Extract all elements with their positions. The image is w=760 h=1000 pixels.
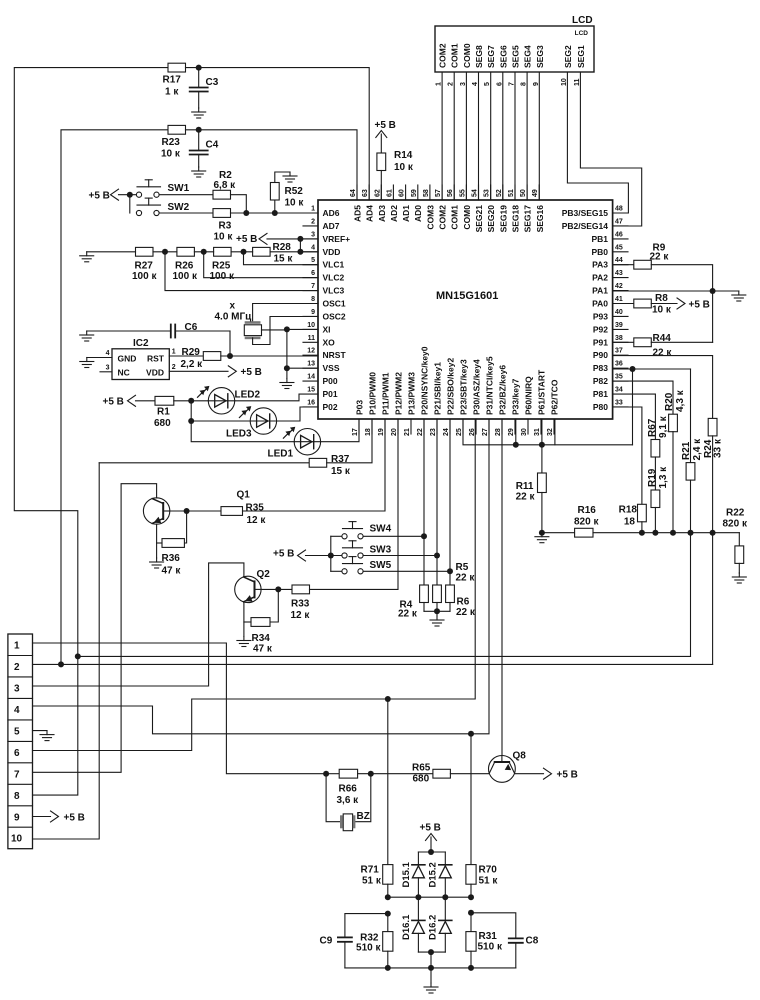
svg-text:SEG1: SEG1 — [576, 45, 586, 68]
ground VSS/resonator — [280, 368, 294, 388]
svg-text:P32/BZ/key6: P32/BZ/key6 — [498, 365, 508, 415]
svg-text:R14: R14 — [394, 150, 413, 161]
svg-text:10: 10 — [11, 834, 23, 845]
LCD pin 1 COM2 — [436, 43, 448, 86]
wire R17 net: left rail down to pin8/pin4 branch — [14, 68, 168, 796]
U1 pin 35 P82 — [593, 374, 628, 387]
capacitor C8 — [509, 936, 539, 968]
ground R27 — [80, 252, 94, 262]
svg-text:COM1: COM1 — [450, 205, 460, 230]
svg-text:47: 47 — [615, 218, 623, 225]
U1 pin 62 AD3 — [374, 185, 387, 222]
svg-text:50: 50 — [520, 189, 527, 197]
svg-text:10 к: 10 к — [214, 232, 234, 243]
wire R33 to MCU pin 20 P12 — [310, 419, 399, 589]
ground C4 — [192, 167, 206, 177]
U1 pin 13 VSS — [303, 361, 340, 374]
svg-text:14: 14 — [307, 374, 315, 381]
U1 pin 5 VLC1 — [303, 257, 345, 270]
U1 pin 57 COM2 — [435, 185, 448, 230]
ground connector pin 5 — [40, 731, 54, 741]
resistor R36 base-emitter — [157, 511, 187, 577]
IC2 pin 4 GND stub — [87, 350, 112, 358]
svg-text:+5 В: +5 В — [420, 823, 441, 834]
wire LCD pin 10 SEG2 to MCU pin 48 PB3/SEG15 — [567, 72, 628, 213]
wire Q1 emitter to ground — [156, 524, 158, 558]
wire pin6 net down to R71 — [387, 699, 389, 865]
svg-text:D16.1: D16.1 — [401, 914, 412, 940]
U1 pin 24 P22/SBO/key2 — [443, 358, 456, 436]
svg-text:1 к: 1 к — [165, 87, 179, 98]
svg-text:LCD: LCD — [575, 30, 589, 37]
wire VREF+ to VDD line — [299, 239, 301, 252]
node R23/C4 junction — [196, 127, 202, 133]
wire R29 to MCU pin 12 NRST — [221, 355, 318, 357]
resistor R23 — [161, 125, 186, 159]
wire R27-R26 node to pin 7 VLC3 — [153, 251, 177, 253]
U1 pin 41 PA0 — [592, 296, 628, 309]
svg-text:+5 В: +5 В — [103, 397, 124, 408]
U1 pin 22 P20/NSYNC/key0 — [417, 346, 430, 436]
resistor R11 — [516, 473, 547, 503]
svg-text:R67: R67 — [647, 418, 658, 437]
wire +5V to pin 3 VREF+ — [267, 238, 318, 240]
svg-text:XO: XO — [323, 337, 336, 347]
svg-text:SEG7: SEG7 — [486, 45, 496, 68]
svg-text:x: x — [230, 301, 236, 312]
wire Q2 base node — [261, 588, 292, 590]
U1 pin 30 P60/NIRQ — [521, 376, 534, 436]
svg-text:R37: R37 — [331, 454, 350, 465]
wire MCU pin 36 P83 to R21 column — [613, 368, 691, 370]
LCD pin 8 SEG4 — [521, 45, 533, 86]
switch SW1 — [136, 180, 189, 197]
wire connector pin 4 to pin 27 net — [33, 419, 490, 734]
svg-text:P93: P93 — [593, 311, 608, 321]
svg-text:SEG17: SEG17 — [523, 205, 533, 233]
U1 pin 53 SEG20 — [484, 185, 497, 232]
svg-text:P23/SBT/key3: P23/SBT/key3 — [459, 359, 469, 415]
svg-text:47 к: 47 к — [162, 566, 182, 577]
svg-text:+5 В: +5 В — [89, 191, 110, 202]
wire LCD pins 1-9 to MCU COM2..SEG16 — [442, 72, 539, 200]
svg-text:C6: C6 — [185, 322, 198, 333]
wire bus to R22 — [738, 533, 740, 546]
resistor R32 — [356, 914, 393, 968]
svg-text:R27: R27 — [135, 261, 154, 272]
switch SW5 — [331, 557, 392, 574]
svg-text:C4: C4 — [206, 140, 219, 151]
capacitor C9 — [320, 936, 352, 968]
resistor R67 — [647, 415, 669, 457]
svg-text:34: 34 — [615, 387, 623, 394]
svg-text:SEG19: SEG19 — [498, 205, 508, 233]
svg-text:SW3: SW3 — [370, 545, 392, 556]
svg-text:22 к: 22 к — [650, 251, 670, 262]
svg-text:8: 8 — [311, 296, 315, 303]
svg-text:SEG20: SEG20 — [486, 205, 496, 233]
svg-text:43: 43 — [615, 270, 623, 277]
svg-text:D15.1: D15.1 — [401, 861, 412, 887]
power +5V connector pin 9 — [51, 811, 85, 824]
svg-text:Q1: Q1 — [237, 490, 251, 501]
wire MCU pin 33 P80 to R18 — [613, 407, 642, 504]
svg-text:P62/TCO: P62/TCO — [550, 379, 560, 415]
wire R37 line from left rail — [99, 462, 309, 464]
wire MCU pin 22 column — [423, 419, 425, 585]
resistor R31 — [466, 913, 503, 968]
svg-text:R5: R5 — [456, 562, 469, 573]
svg-text:XI: XI — [323, 324, 331, 334]
wire R65 to Q8 — [450, 773, 488, 775]
U1 pin 21 P13/PWM3 — [404, 372, 417, 436]
resistor R66 — [337, 769, 360, 806]
svg-text:PA0: PA0 — [592, 299, 608, 309]
wire +5V to switch block — [306, 555, 343, 557]
svg-text:R66: R66 — [339, 784, 358, 795]
svg-text:D15.2: D15.2 — [428, 862, 439, 887]
diode D16.1 — [401, 897, 425, 952]
resistor R20 — [664, 389, 686, 431]
svg-text:36: 36 — [615, 361, 623, 368]
U1 pin 46 PB1 — [591, 231, 628, 244]
wire MCU pin 34 P81 to R67 — [613, 394, 656, 439]
U1 pin 52 SEG19 — [496, 185, 509, 232]
wire LED2 to MCU pin 15 P01 — [235, 394, 318, 401]
svg-text:100 к: 100 к — [210, 271, 235, 282]
svg-text:680: 680 — [413, 774, 430, 785]
resistor R70 — [466, 865, 499, 887]
svg-text:2,2 к: 2,2 к — [181, 359, 204, 370]
wire LED1 to MCU pin 17 P03 — [321, 419, 359, 442]
svg-text:PA1: PA1 — [592, 286, 608, 296]
svg-text:53: 53 — [484, 189, 491, 197]
svg-text:10 к: 10 к — [161, 149, 181, 160]
power +5V diode clamp — [420, 823, 441, 841]
resistor R29 — [181, 347, 221, 370]
svg-text:57: 57 — [435, 189, 442, 197]
svg-text:R35: R35 — [246, 503, 265, 514]
svg-text:4: 4 — [311, 244, 315, 251]
wire R1 node down to LED3 — [190, 401, 192, 421]
U1 pin 49 SEG16 — [532, 185, 545, 232]
svg-text:R71: R71 — [361, 865, 380, 876]
svg-text:510 к: 510 к — [356, 943, 381, 954]
resistor R3 — [213, 209, 233, 243]
svg-text:7: 7 — [14, 769, 20, 780]
wire net R17/pin8 branch to R21 bottom — [78, 655, 691, 657]
LED LED3 — [226, 406, 277, 439]
resistor R21 — [681, 438, 703, 480]
svg-text:P33/key7: P33/key7 — [511, 378, 521, 415]
U1 pin 36 P83 — [593, 361, 628, 374]
wire R21 column to pin8 net line — [690, 533, 692, 657]
wire connector pin 1 to buzzer network — [33, 643, 327, 774]
resistor R4 — [398, 585, 428, 620]
svg-text:62: 62 — [374, 189, 381, 197]
svg-text:3: 3 — [311, 231, 315, 238]
wire R11 node to R16 — [542, 532, 575, 534]
power +5V R1 — [103, 395, 136, 407]
switch SW4 — [331, 522, 392, 539]
capacitor C6 — [87, 322, 230, 338]
svg-text:4: 4 — [14, 705, 20, 716]
svg-text:COM2: COM2 — [438, 43, 448, 68]
svg-text:3: 3 — [14, 683, 20, 694]
U1 pin 6 VLC2 — [303, 270, 345, 283]
svg-text:P22/SBO/key2: P22/SBO/key2 — [446, 358, 456, 415]
svg-text:R26: R26 — [175, 261, 194, 272]
wire R37 rail down to connector pin 10 — [33, 463, 100, 839]
svg-text:AD2: AD2 — [389, 205, 399, 222]
ground R4/R5/R6 — [430, 616, 444, 626]
transistor Q2 — [235, 569, 271, 603]
ground C6 — [80, 331, 94, 341]
svg-text:SW2: SW2 — [168, 202, 190, 213]
resistor R44 — [634, 333, 673, 359]
U1 pin 29 P33/key7 — [508, 378, 521, 436]
resistor R9 — [634, 243, 670, 270]
svg-text:23: 23 — [430, 428, 437, 436]
svg-text:10: 10 — [307, 322, 315, 329]
svg-text:P81: P81 — [593, 389, 608, 399]
wire key line up to P83 node — [632, 369, 634, 445]
svg-text:10 к: 10 к — [394, 162, 414, 173]
svg-text:9: 9 — [14, 812, 20, 823]
svg-text:R16: R16 — [578, 505, 597, 516]
svg-text:P31/NTCI/key5: P31/NTCI/key5 — [485, 356, 495, 415]
wire resonator center to XI and VSS ground — [262, 329, 287, 331]
crystal resonator X1 4.0 MHz — [215, 301, 262, 338]
resistor R28 — [253, 242, 294, 265]
svg-text:15 к: 15 к — [274, 254, 294, 265]
svg-text:R6: R6 — [457, 597, 470, 608]
wire R17 to C3 and MCU pin 63 — [186, 68, 370, 200]
resistor R71 — [361, 865, 393, 887]
supervisor IC2 — [112, 338, 169, 380]
U1 pin 20 P12/PWM2 — [391, 372, 404, 436]
svg-text:P91: P91 — [593, 337, 608, 347]
svg-text:P80: P80 — [593, 402, 608, 412]
U1 pin 7 VLC3 — [303, 283, 345, 296]
svg-text:58: 58 — [423, 189, 430, 197]
svg-text:D16.2: D16.2 — [428, 915, 439, 940]
wire LED3 to MCU pin 16 P02 — [277, 407, 318, 421]
svg-text:680: 680 — [154, 418, 171, 429]
svg-text:SEG16: SEG16 — [535, 205, 545, 233]
svg-text:C9: C9 — [320, 936, 333, 947]
svg-text:R33: R33 — [291, 599, 310, 610]
svg-text:55: 55 — [459, 189, 466, 197]
svg-text:39: 39 — [615, 322, 623, 329]
svg-text:820 к: 820 к — [574, 517, 599, 528]
switch SW3 — [342, 541, 392, 558]
svg-text:SEG21: SEG21 — [474, 205, 484, 233]
svg-text:6: 6 — [311, 270, 315, 277]
svg-text:VLC1: VLC1 — [323, 260, 345, 270]
svg-text:P60/NIRQ: P60/NIRQ — [524, 376, 534, 415]
svg-text:12 к: 12 к — [247, 515, 267, 526]
svg-text:+5 В: +5 В — [64, 813, 85, 824]
wire R26-R25 node to pin 6 VLC2 — [194, 251, 213, 253]
svg-text:R23: R23 — [162, 137, 181, 148]
svg-text:22: 22 — [417, 428, 424, 436]
wire R24 column down to connector pin2 net — [712, 533, 714, 665]
svg-text:41: 41 — [615, 296, 623, 303]
svg-text:1: 1 — [14, 641, 20, 652]
svg-text:P00: P00 — [323, 376, 338, 386]
power +5V IC2 — [228, 366, 262, 378]
wire MCU pin 32 column — [554, 419, 556, 445]
resistor R19 — [647, 466, 669, 508]
svg-text:5: 5 — [14, 726, 20, 737]
U1 pin 58 COM3 — [423, 185, 436, 230]
wire R44 to PA1 node column — [651, 341, 712, 343]
wire Q1 collector to connector pin 7 — [33, 484, 157, 773]
wire SW5 to pin24 column — [363, 570, 450, 572]
wire MCU pin 35 P82 to R20 — [613, 381, 673, 414]
svg-text:SEG3: SEG3 — [535, 45, 545, 68]
U1 pin 33 P80 — [593, 399, 628, 412]
wire C6 to NRST node — [229, 331, 231, 356]
node R17/C3 junction — [196, 65, 202, 71]
LCD pin 9 SEG3 — [533, 45, 545, 86]
power +5V R8 — [677, 298, 710, 311]
wire SW4 to pin22 column — [363, 535, 424, 537]
wire R9 down to PA1 node — [651, 265, 712, 343]
svg-text:29: 29 — [508, 428, 515, 436]
LCD connector — [435, 15, 594, 86]
LCD pin 4 SEG8 — [472, 45, 484, 86]
resistor R22 — [723, 508, 748, 564]
svg-text:48: 48 — [615, 206, 623, 213]
U1 pin 56 COM1 — [447, 185, 460, 230]
svg-text:PB2/SEG14: PB2/SEG14 — [562, 221, 609, 231]
svg-text:PB1: PB1 — [591, 234, 608, 244]
U1 pin 25 P23/SBT/key3 — [456, 359, 469, 436]
svg-text:VSS: VSS — [323, 363, 340, 373]
svg-text:+5 В: +5 В — [557, 770, 578, 781]
svg-text:R31: R31 — [479, 931, 498, 942]
svg-text:+5 В: +5 В — [241, 367, 262, 378]
svg-text:P01: P01 — [323, 389, 338, 399]
svg-text:24: 24 — [443, 428, 450, 436]
svg-text:SEG8: SEG8 — [474, 45, 484, 68]
wire VSS — [287, 367, 318, 369]
svg-text:R19: R19 — [647, 468, 658, 487]
svg-text:60: 60 — [399, 189, 406, 197]
svg-text:GND: GND — [118, 354, 137, 364]
svg-text:+5 В: +5 В — [375, 120, 396, 131]
svg-text:12 к: 12 к — [291, 610, 311, 621]
wire SW1 to R2 — [159, 194, 213, 196]
U1 pin 1 AD6 — [303, 206, 340, 219]
diode D15.2 — [428, 852, 452, 897]
svg-text:51: 51 — [508, 189, 515, 197]
wire MCU pin 24 column — [449, 419, 451, 585]
svg-text:PB3/SEG15: PB3/SEG15 — [562, 208, 609, 218]
U1 pin 63 AD4 — [362, 185, 375, 222]
svg-text:51 к: 51 к — [479, 876, 499, 887]
svg-text:OSC1: OSC1 — [323, 299, 346, 309]
svg-text:42: 42 — [615, 283, 623, 290]
resistor R27 — [132, 247, 157, 282]
svg-text:P11/PWM1: P11/PWM1 — [381, 372, 391, 415]
svg-text:P83: P83 — [593, 363, 608, 373]
U1 pin 27 P31/NTCI/key5 — [482, 356, 495, 436]
svg-text:9,1 к: 9,1 к — [658, 415, 669, 438]
svg-text:P13/PWM3: P13/PWM3 — [407, 372, 417, 415]
svg-text:6,8 к: 6,8 к — [214, 180, 237, 191]
wire LCD pin 11 SEG1 to MCU pin 47 PB2/SEG14 — [580, 72, 641, 226]
U1 pin 51 SEG18 — [508, 185, 521, 232]
IC2 pin 3 NC stub — [100, 364, 112, 372]
U1 pin 60 AD1 — [399, 185, 412, 222]
svg-text:18: 18 — [365, 428, 372, 436]
svg-text:R17: R17 — [163, 75, 182, 86]
wire bottom bus — [345, 967, 516, 969]
U1 pin 34 P81 — [593, 387, 628, 400]
svg-text:P82: P82 — [593, 376, 608, 386]
capacitor C3 — [190, 68, 219, 108]
svg-text:NRST: NRST — [323, 350, 347, 360]
svg-text:MN15G1601: MN15G1601 — [436, 290, 498, 302]
wire R37 to MCU pin 18 P10 — [327, 419, 372, 463]
resistor R6 — [446, 585, 476, 618]
svg-text:P20/NSYNC/key0: P20/NSYNC/key0 — [420, 346, 430, 415]
svg-text:4: 4 — [106, 350, 110, 357]
svg-text:64: 64 — [350, 189, 357, 197]
resistor R14 — [377, 134, 414, 200]
LCD pin 11 SEG1 — [574, 45, 586, 86]
svg-text:SW5: SW5 — [370, 560, 392, 571]
resistor R1 — [136, 396, 174, 429]
resistor R8 — [634, 293, 672, 315]
svg-text:NC: NC — [118, 368, 130, 378]
svg-text:100 к: 100 к — [173, 271, 198, 282]
wire connector pin 5 to ground — [33, 730, 48, 732]
svg-text:1: 1 — [311, 206, 315, 213]
svg-text:6: 6 — [14, 748, 20, 759]
U1 pin 54 SEG21 — [472, 185, 485, 232]
svg-text:3: 3 — [106, 364, 110, 371]
wire to R66 — [326, 773, 339, 775]
svg-text:PB0: PB0 — [591, 247, 608, 257]
svg-text:AD5: AD5 — [353, 205, 363, 222]
wire resonator bottom to OSC2 — [253, 317, 318, 345]
svg-text:10 к: 10 к — [652, 304, 672, 315]
power +5V switches — [273, 549, 306, 562]
diode D16.2 — [428, 897, 452, 952]
switch SW2 — [136, 198, 189, 215]
svg-text:30: 30 — [521, 428, 528, 436]
LCD pin 10 SEG2 — [561, 45, 573, 86]
svg-text:P03: P03 — [355, 400, 365, 415]
svg-text:LED2: LED2 — [235, 390, 261, 401]
svg-text:LCD: LCD — [572, 15, 593, 26]
ground C3 — [192, 108, 206, 118]
wire ladder bus — [593, 532, 739, 534]
svg-text:10 к: 10 к — [285, 198, 305, 209]
power +5V for R14 — [375, 120, 396, 138]
U1 pin 39 P92 — [593, 322, 628, 335]
LCD pin 2 COM1 — [448, 43, 460, 86]
svg-text:P21/SBI/key1: P21/SBI/key1 — [433, 362, 443, 415]
svg-text:52: 52 — [496, 189, 503, 197]
svg-text:AD3: AD3 — [377, 205, 387, 222]
svg-text:VDD: VDD — [146, 368, 164, 378]
svg-text:COM0: COM0 — [462, 205, 472, 230]
